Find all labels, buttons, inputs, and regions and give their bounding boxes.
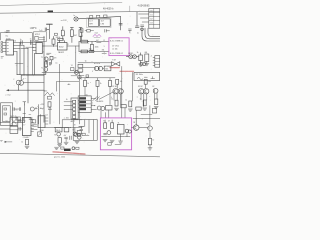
resistor R17 vertical with label: [116, 79, 119, 84]
svg-text:9: 9: [92, 71, 93, 73]
choke L1 on wire: [90, 16, 93, 19]
transistor Q17: [125, 129, 128, 132]
wire down x50: [49, 110, 51, 124]
J3 pin stubs: [153, 57, 155, 59]
capacitor C10 row: [12, 108, 14, 111]
svg-text:10k: 10k: [148, 81, 151, 83]
wire top: [62, 119, 82, 121]
wire vertical x24: [23, 46, 25, 75]
resistor box R27: [136, 107, 141, 110]
wire down to module: [100, 110, 102, 118]
svg-text:1n5: 1n5: [39, 30, 42, 32]
svg-text:T1: T1: [41, 57, 43, 59]
wire vertical x24.6: [24, 105, 26, 122]
ground: [25, 146, 29, 148]
resistor R21 vertical: [70, 27, 73, 29]
transistor Q21: [57, 133, 61, 137]
resistor box R16: [106, 106, 112, 110]
arrow triangle: [49, 107, 52, 109]
component mark M1: [55, 33, 58, 35]
table stub b: [91, 105, 94, 107]
svg-text:1k: 1k: [21, 141, 23, 143]
dual gang capacitor circle a: [16, 80, 21, 85]
svg-text:S.20 47388 01: S.20 47388 01: [110, 40, 124, 42]
scan speckle noise: [5, 2, 156, 145]
component box right: [77, 131, 81, 134]
svg-text:1k: 1k: [125, 100, 127, 102]
resistor R5: [81, 40, 88, 43]
wire U2 pin vertical x34.4: [33, 54, 35, 75]
wire U1 below stub: [15, 63, 23, 65]
svg-text:D1: D1: [150, 15, 152, 17]
IC U5: [22, 118, 31, 136]
component block B1: [34, 32, 47, 42]
input arrow: [5, 141, 8, 143]
transistor Q26: [77, 133, 80, 136]
resistor R9 vertical: [139, 55, 143, 61]
ground: [110, 140, 114, 142]
IC U2: [36, 42, 42, 53]
capacitor C16: [69, 136, 71, 140]
wire vertical x132.5: [132, 72, 134, 101]
wire bus x44 vertical: [43, 36, 45, 122]
resistor R29 vertical: [111, 123, 114, 129]
svg-text:NF 1kHz: NF 1kHz: [136, 74, 143, 76]
ground: [145, 64, 149, 66]
wire U1 pin 4: [14, 51, 18, 53]
svg-text:D0: D0: [150, 11, 152, 13]
wire inner low: [115, 144, 121, 146]
wire bundle curve 3: [148, 28, 160, 36]
resistor R15 vertical: [109, 78, 111, 81]
wire Q13 base down: [143, 94, 145, 107]
coupling marks: [47, 52, 51, 54]
wire main bus: [55, 127, 82, 129]
resistor R7: [81, 50, 88, 53]
wire stub: [126, 56, 129, 58]
svg-text:4.65439/85: 4.65439/85: [138, 4, 151, 7]
resistor R13 vertical: [84, 78, 86, 81]
table key Mem: [79, 104, 86, 106]
wire Q13 down: [140, 94, 142, 100]
component box: [64, 128, 69, 132]
transistor Q20: [148, 126, 153, 131]
transistor Q10: [101, 106, 105, 110]
wire vertical x121: [120, 16, 122, 30]
ground: [139, 64, 143, 66]
switch table box: [78, 96, 91, 113]
svg-text:12: 12: [42, 51, 44, 53]
transistor Q24: [72, 147, 75, 150]
svg-text:47: 47: [108, 121, 110, 123]
waveform sine: [137, 77, 143, 80]
capacitor C18: [104, 29, 106, 32]
U1 left pin 1 pad: [3, 42, 6, 44]
svg-text:S.20 47388 02: S.20 47388 02: [110, 53, 124, 55]
resistor box R26: [121, 105, 126, 108]
svg-text:SL: SL: [118, 122, 120, 124]
wire vertical x38.6 with ticks: [38, 105, 40, 125]
svg-text:5: 5: [104, 46, 105, 48]
resistor R19 vertical: [115, 100, 118, 106]
wire capacitor down: [18, 85, 20, 90]
svg-text:NE612: NE612: [58, 52, 64, 54]
transistor Q2: [44, 68, 48, 72]
svg-text:17: 17: [23, 124, 25, 126]
wire left b: [0, 128, 10, 130]
svg-text:12: 12: [103, 40, 105, 42]
ground: [58, 144, 62, 146]
svg-text:7: 7: [137, 97, 138, 99]
svg-text:n5: n5: [16, 109, 18, 111]
svg-text:10.7: 10.7: [89, 21, 93, 23]
capacitor C11: [21, 118, 23, 121]
junction node: [79, 46, 80, 47]
svg-text:Abgl: Abgl: [40, 107, 44, 110]
component box: [16, 117, 21, 120]
transistor Q7: [75, 70, 79, 74]
wire mid low: [56, 81, 79, 83]
svg-text:+12V: +12V: [40, 104, 45, 106]
ground: [54, 147, 58, 149]
wire Q14 branch down: [149, 106, 151, 126]
wire aux y114: [141, 113, 152, 115]
svg-text:T7: T7: [72, 129, 74, 131]
junction node: [28, 90, 29, 91]
junction vertical x79: [78, 42, 80, 52]
ground: [119, 141, 123, 143]
wire bus y74.7: [17, 74, 45, 76]
svg-text:Tp: Tp: [85, 61, 87, 63]
wire vertical inside shield c: [93, 120, 95, 141]
junction node: [28, 48, 29, 49]
svg-text:4x: 4x: [137, 32, 139, 34]
wire U1 pin to bus: [14, 42, 43, 44]
antenna T mast: [47, 23, 53, 25]
wire stub: [13, 121, 25, 123]
wire Q11 down: [113, 94, 115, 101]
wire J2 pin b: [140, 17, 148, 19]
wire U3 top a: [59, 40, 61, 43]
shield box top edge: [1, 32, 33, 34]
wire mid bus y72.5: [42, 72, 82, 74]
IC U4: [117, 124, 124, 134]
wire vertical x137: [136, 12, 138, 24]
svg-text:1k: 1k: [48, 60, 50, 62]
svg-text:T5: T5: [103, 121, 105, 123]
connector header J2: [149, 9, 160, 29]
ground: [148, 148, 152, 150]
input block IN1: [78, 64, 83, 67]
lower wire row: [78, 77, 115, 79]
small box right edge: [152, 108, 156, 113]
capacitor C15: [65, 136, 68, 138]
shield box outer: [1, 103, 13, 126]
resistor R2 vertical: [53, 36, 55, 39]
filter block FL2: [100, 19, 111, 26]
signal arrow: [6, 89, 9, 91]
svg-text:3: 3: [151, 55, 152, 57]
svg-text:4k7: 4k7: [74, 35, 77, 37]
wire vertical x79.5: [79, 72, 81, 124]
wire vertical x75.8: [75, 46, 77, 73]
svg-text:6k8: 6k8: [145, 52, 148, 54]
capacitor C3 on wire: [30, 40, 32, 44]
svg-text:gez. K.L. 2004: gez. K.L. 2004: [54, 157, 65, 159]
resistor R8: [89, 50, 94, 53]
table key ATB: [79, 97, 86, 99]
resistor box R11: [104, 66, 111, 71]
J4 contact 2: [73, 104, 76, 107]
wire mid row: [78, 62, 111, 64]
transistor Q14: [144, 89, 149, 94]
component box inner: [108, 143, 111, 146]
wire Q20 emitter down: [149, 131, 151, 139]
svg-text:S1: S1: [86, 94, 88, 96]
resistor R10 tall: [145, 54, 149, 62]
wire Q19 collector up: [135, 118, 137, 125]
svg-text:Tr 67: Tr 67: [112, 59, 116, 61]
resistor R14 vertical: [97, 78, 99, 81]
capacitor C17: [48, 62, 50, 65]
transistor Q15: [153, 88, 158, 93]
junction node: [94, 40, 97, 43]
shield box right edge wire: [31, 33, 33, 75]
border bottom line: [0, 153, 160, 157]
svg-text:BC237b: BC237b: [94, 63, 100, 65]
svg-text:a: a: [81, 79, 82, 81]
bold tick on border: [48, 11, 53, 13]
trimmer circle: [141, 28, 144, 31]
wire blocks to Q5: [83, 67, 95, 69]
resistor R28 vertical: [104, 123, 107, 129]
wire from capacitor: [24, 81, 45, 83]
svg-text:PA 8020: PA 8020: [96, 100, 103, 103]
resistor R12 vertical: [48, 102, 51, 107]
svg-text:T4: T4: [71, 65, 73, 67]
U2 left pins: [33, 44, 36, 46]
ground: [128, 109, 132, 111]
svg-text:4: 4: [111, 97, 112, 99]
border top line B: [0, 11, 160, 13]
svg-text:4u: 4u: [55, 63, 57, 65]
ground: [75, 142, 79, 144]
component under peak: [47, 96, 51, 99]
svg-text:1k: 1k: [100, 83, 102, 85]
svg-text:v. Osz: v. Osz: [5, 94, 10, 96]
wire J4 b: [64, 105, 73, 107]
capacitor C7: [135, 25, 139, 27]
wire U3 top b: [64, 41, 66, 43]
annotation box (magenta): [109, 38, 129, 56]
wire inside shield: [86, 135, 89, 137]
dual gang capacitor circle b: [19, 81, 24, 86]
wire inner bus: [102, 136, 131, 138]
module outline: [87, 18, 112, 28]
svg-text:150: 150: [89, 49, 92, 51]
U6 right pins: [45, 117, 48, 119]
svg-text:48-4039 b: 48-4039 b: [103, 9, 114, 11]
junction node: [70, 127, 71, 128]
red note text 1: [110, 67, 119, 69]
border top line A: [0, 2, 122, 5]
svg-text:10.7: 10.7: [101, 21, 105, 23]
choke L2 on wire: [97, 15, 100, 17]
capacitor C6 below: [80, 29, 83, 33]
wire J4 c: [64, 108, 73, 110]
mark lines right of U5: [32, 124, 36, 126]
inner mark a: [4, 108, 7, 110]
connector edge box J3: [155, 56, 160, 68]
transistor Q19 power: [133, 125, 139, 131]
capacitor C8: [141, 24, 144, 26]
wire vertical inside shield a: [84, 120, 86, 127]
wire Q15 down: [154, 93, 156, 99]
svg-text:10: 10: [152, 140, 154, 142]
mark under Q7: [71, 75, 78, 77]
svg-text:78L05: 78L05: [56, 130, 61, 132]
small box right of U5: [32, 120, 35, 123]
wire Q14 down: [146, 94, 148, 100]
transistor Q13: [139, 89, 144, 94]
ground: [64, 142, 68, 144]
component box mid: [71, 68, 75, 71]
transistor Q6: [98, 66, 102, 70]
capacitor C5 on vertical: [119, 23, 122, 25]
capacitor tee inside shield: [79, 126, 84, 128]
svg-text:1k: 1k: [87, 83, 89, 85]
wire row y51.5: [79, 51, 109, 53]
svg-text:D4: D4: [46, 114, 48, 116]
resistor R22 vertical: [79, 27, 82, 29]
wire top bus right: [133, 117, 160, 119]
wire bundle curve 2: [145, 28, 160, 39]
input block IN2: [78, 69, 83, 72]
resistor R18 vertical with label: [144, 79, 147, 84]
crossing diagonal a: [93, 96, 98, 101]
J4 contact 3: [73, 108, 76, 111]
wire Q12 down: [116, 94, 118, 100]
wire J2 pin c: [142, 21, 149, 23]
resistor R20 vertical: [129, 101, 132, 107]
red note text 2: [120, 70, 134, 72]
svg-text:A417: A417: [71, 120, 75, 123]
trimmer pair circles: [140, 62, 143, 65]
svg-text:4u7: 4u7: [80, 36, 83, 38]
table key Baud: [79, 101, 86, 103]
ground: [154, 107, 158, 109]
dark stamp mark: [64, 149, 71, 151]
svg-text:9: 9: [104, 52, 105, 54]
transistor Q3: [129, 55, 133, 59]
capacitor C2 on wire: [20, 41, 22, 45]
diode box with diagonal: [38, 132, 42, 136]
wire J2 pin a: [139, 13, 149, 15]
svg-text:T2: T2: [41, 68, 43, 70]
ground: [143, 108, 147, 110]
svg-text:47 Ohm: 47 Ohm: [112, 45, 119, 47]
wire Q4 to R9: [136, 56, 138, 58]
svg-text:D2: D2: [150, 19, 152, 21]
transistor Q25: [74, 133, 77, 136]
trimmer circle T2: [30, 107, 34, 111]
junction node: [54, 127, 55, 128]
svg-text:La: La: [73, 15, 75, 17]
wire Q6 to R11: [103, 68, 105, 70]
transistor Q23: [78, 136, 82, 140]
ground: [114, 108, 118, 110]
mark lines: [29, 117, 33, 119]
IC U3: [58, 43, 68, 51]
shield box left stub: [0, 33, 2, 40]
svg-text:1n: 1n: [20, 39, 22, 41]
svg-text:osc: osc: [29, 114, 32, 116]
transistor Q4: [133, 55, 137, 59]
junction node: [63, 127, 64, 128]
wire left a: [0, 122, 10, 124]
component row under filters: [87, 29, 90, 32]
shield box inner: [3, 106, 11, 122]
wire vertical x56.3: [55, 82, 57, 91]
wire row y41.5: [79, 41, 109, 43]
transistor Q1: [44, 57, 48, 61]
wire vertical inside shield b: [88, 120, 90, 133]
wire into module a: [124, 108, 126, 118]
svg-text:560: 560: [105, 69, 108, 71]
svg-text:100k: 100k: [95, 47, 99, 49]
svg-text:1k: 1k: [140, 98, 142, 100]
svg-text:8: 8: [68, 44, 69, 46]
inner mark b: [4, 113, 7, 115]
lamp symbol: [74, 17, 78, 21]
red revision note: [53, 152, 85, 154]
mark row: [23, 113, 26, 115]
connector block J4: [71, 98, 78, 119]
resistor R4 vertical: [50, 56, 53, 59]
wire Q13 branch down: [135, 110, 137, 125]
component box inside shield: [82, 133, 85, 135]
wire lamp to right: [78, 16, 120, 18]
resistor R23 vertical: [61, 30, 64, 36]
filter box X2: [10, 126, 18, 133]
wire vertical x17: [16, 52, 18, 75]
U1 left pin 4 pad: [3, 51, 6, 53]
wire vertical x59.7: [59, 64, 61, 124]
wire cross link: [26, 46, 34, 48]
U1 left pin 3 pad: [3, 48, 6, 50]
resistor R6 vertical: [90, 44, 93, 50]
wire bundle curve 1: [142, 28, 160, 41]
crossing diagonal b: [96, 97, 100, 101]
wire U1 pin 2: [14, 45, 25, 47]
junction node: [44, 46, 45, 47]
U5 right pins: [31, 119, 34, 121]
wire arrow row: [9, 89, 44, 91]
resistor R30 vertical: [148, 138, 151, 144]
resistor R32 vertical: [58, 138, 61, 144]
wire U2 to bus: [42, 45, 44, 47]
filter block FL1: [88, 19, 98, 26]
long diagonal wire: [99, 92, 113, 99]
wire vertical x20: [19, 43, 21, 75]
svg-text:16: 16: [14, 41, 16, 43]
capacitor C12: [104, 133, 107, 135]
pin marks below U1: [1, 56, 4, 58]
wire into module b: [105, 113, 107, 118]
svg-text:4u7: 4u7: [64, 135, 67, 137]
transistor Q12: [118, 89, 123, 94]
wire U3 left: [44, 45, 58, 47]
